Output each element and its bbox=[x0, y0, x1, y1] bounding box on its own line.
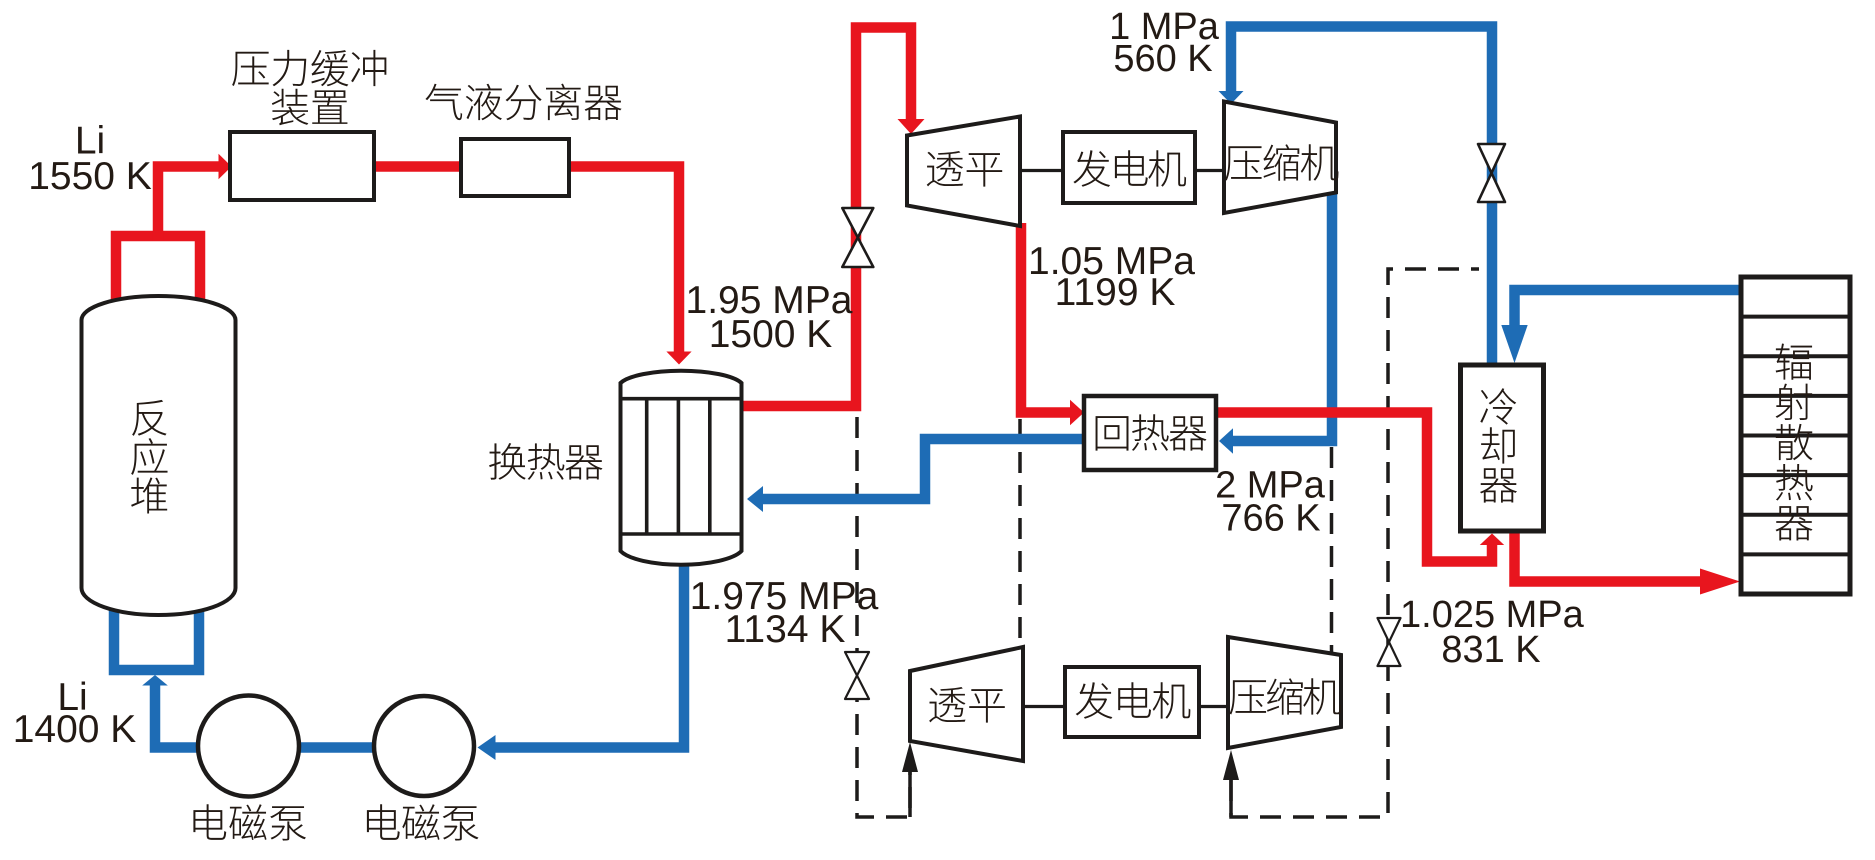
label turbine U1 透平 bbox=[927, 151, 1002, 187]
svg-text:1199 K: 1199 K bbox=[1055, 271, 1176, 314]
shaft U2-G2 bbox=[1023, 705, 1067, 708]
wire blue pump P1 to reactor bbox=[155, 684, 198, 748]
compressor C2 bbox=[1228, 637, 1341, 748]
arrow dashed into turbine U2 bbox=[902, 742, 918, 817]
label buffer 装置 bbox=[272, 89, 348, 126]
arrow into turbine U1 inlet bbox=[898, 119, 925, 134]
label compressor C1 压缩机 bbox=[1225, 144, 1338, 180]
arrow into regenerator left bbox=[1070, 400, 1084, 426]
dashed compressor C2 outlet loop with valve bbox=[1231, 269, 1479, 817]
generator G2 bbox=[1065, 667, 1199, 737]
shaft G1-C1 bbox=[1195, 169, 1226, 172]
wire red buffer to separator bbox=[374, 161, 461, 172]
svg-text:1550 K: 1550 K bbox=[28, 155, 152, 198]
wire red turbine outlet to regenerator bbox=[1021, 223, 1071, 413]
arrow into buffer device bbox=[219, 154, 232, 180]
label pump P2 电磁泵 bbox=[367, 804, 479, 840]
valve on dashed branch right bbox=[1378, 618, 1401, 666]
label reactor 反应堆 bbox=[131, 400, 167, 514]
arrow into cooler top bbox=[1501, 325, 1527, 363]
pump P1 circle bbox=[198, 696, 299, 797]
arrow into pump P2 bbox=[478, 735, 496, 760]
label compressor C2 压缩机 bbox=[1230, 678, 1341, 714]
shaft G2-C2 bbox=[1199, 705, 1230, 708]
wire red heat exchanger to turbine U1 bbox=[741, 28, 911, 407]
arrow dashed into compressor C2 bbox=[1223, 750, 1239, 817]
radiator 辐射散热器 bbox=[1741, 277, 1850, 594]
cooler 冷却器 box bbox=[1461, 365, 1544, 531]
dashed tap from compressor outlet to compressor C2 bbox=[1330, 447, 1334, 652]
heat exchanger vessel bbox=[619, 371, 744, 565]
arrow into reactor bottom bbox=[142, 675, 168, 686]
arrow into heat exchanger right bbox=[747, 486, 763, 512]
dashed tap from red line through valve to turbine U2 bbox=[857, 417, 910, 817]
wire blue radiator to cooler bbox=[1515, 290, 1742, 325]
label pump P1 电磁泵 bbox=[193, 804, 306, 840]
wire blue cooler to compressor C1 bbox=[1231, 27, 1492, 367]
svg-text:560 K: 560 K bbox=[1113, 38, 1212, 80]
wire red regenerator to cooler bbox=[1216, 413, 1492, 562]
reactor vessel bbox=[82, 296, 236, 615]
wire blue regenerator to heat exchanger bbox=[762, 439, 1084, 499]
dashed tap from turbine outlet to turbine U2 inlet bbox=[1018, 419, 1022, 645]
shaft U1-G1 bbox=[1020, 169, 1064, 172]
wire blue heat exchanger to pump P2 bbox=[495, 564, 684, 748]
gas-liquid separator bbox=[461, 139, 569, 196]
wire red reactor to buffer device bbox=[158, 167, 219, 242]
svg-text:766 K: 766 K bbox=[1221, 498, 1320, 540]
svg-text:1400 K: 1400 K bbox=[13, 708, 137, 751]
label regenerator 回热器 bbox=[1096, 414, 1207, 450]
arrow into heat exchanger top bbox=[666, 352, 691, 365]
arrow into compressor C1 inlet bbox=[1219, 91, 1244, 104]
svg-text:1134 K: 1134 K bbox=[725, 608, 846, 651]
label separator 气液分离器 bbox=[425, 84, 621, 121]
wire blue reactor bottom cap bbox=[114, 604, 199, 670]
valve on blue return line bbox=[1478, 144, 1505, 202]
compressor C1 bbox=[1224, 102, 1336, 214]
wire blue compressor outlet to regenerator bbox=[1232, 194, 1332, 441]
label generator G2 发电机 bbox=[1076, 682, 1191, 719]
wire blue between pumps bbox=[297, 742, 374, 753]
wire red separator to heat exchanger bbox=[569, 167, 679, 353]
pump P2 circle bbox=[374, 696, 474, 796]
arrow into radiator bbox=[1700, 569, 1740, 595]
regenerator 回热器 box bbox=[1084, 396, 1216, 470]
arrow into regenerator right bbox=[1219, 428, 1233, 454]
valve on dashed branch left bbox=[845, 652, 869, 699]
pressure buffer device bbox=[230, 132, 374, 200]
wire red cooler to radiator bbox=[1515, 530, 1701, 582]
svg-text:1500 K: 1500 K bbox=[709, 313, 833, 356]
label buffer 压力缓冲 bbox=[232, 50, 386, 86]
turbine U1 bbox=[907, 117, 1020, 227]
svg-text:831 K: 831 K bbox=[1441, 629, 1540, 671]
label generator G1 发电机 bbox=[1073, 150, 1186, 187]
label turbine U2 透平 bbox=[929, 687, 1005, 723]
arrow into cooler bottom bbox=[1480, 534, 1504, 546]
label heat exchanger 换热器 bbox=[489, 443, 602, 480]
label cooler 冷却器 bbox=[1480, 388, 1517, 502]
valve on red hot line bbox=[842, 208, 873, 267]
generator G1 bbox=[1063, 132, 1195, 203]
label radiator 辐射散热器 bbox=[1775, 343, 1812, 540]
turbine U2 bbox=[910, 647, 1023, 761]
wire red reactor top cap bbox=[116, 236, 200, 300]
